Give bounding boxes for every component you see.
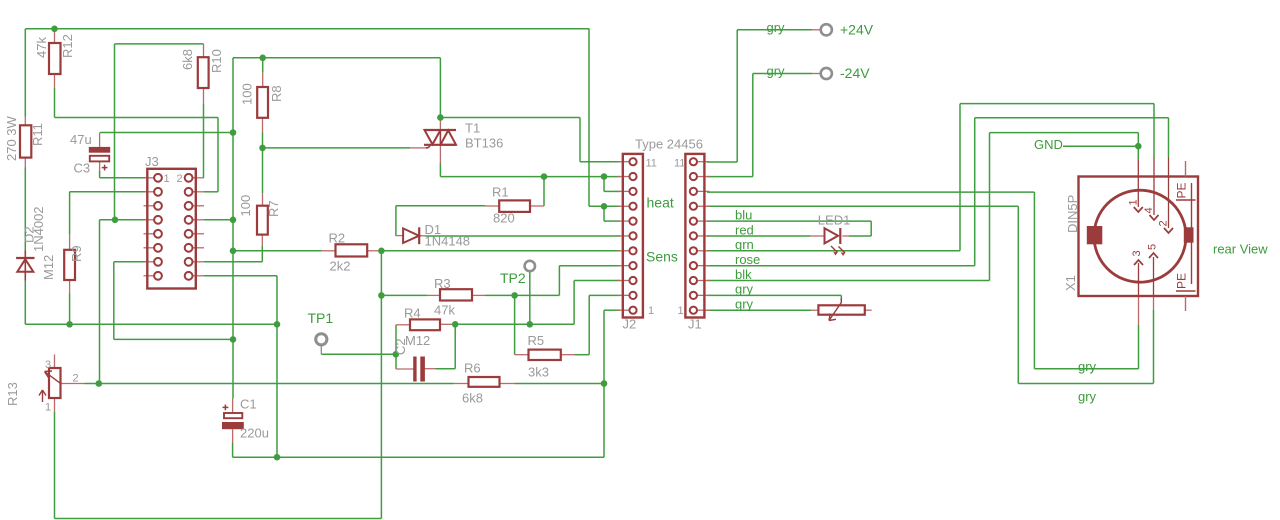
- svg-text:2: 2: [1158, 220, 1170, 226]
- svg-text:2k2: 2k2: [330, 259, 351, 274]
- svg-text:BT136: BT136: [465, 136, 503, 151]
- svg-text:11: 11: [646, 158, 657, 170]
- svg-text:1: 1: [678, 305, 684, 317]
- svg-text:R6: R6: [464, 361, 481, 376]
- svg-text:1: 1: [45, 402, 51, 414]
- svg-text:47u: 47u: [70, 132, 92, 147]
- svg-text:gry: gry: [767, 20, 786, 35]
- svg-text:R11: R11: [30, 123, 45, 146]
- svg-text:M12: M12: [41, 255, 56, 280]
- svg-text:R10: R10: [209, 49, 224, 73]
- svg-text:-24V: -24V: [840, 65, 870, 81]
- svg-text:LED1: LED1: [818, 213, 851, 228]
- svg-text:T1: T1: [465, 121, 480, 136]
- svg-text:47k: 47k: [434, 303, 455, 318]
- svg-text:47k: 47k: [34, 37, 49, 58]
- svg-text:C1: C1: [240, 397, 257, 412]
- svg-text:rose: rose: [735, 252, 760, 267]
- svg-text:X1: X1: [1063, 275, 1078, 291]
- svg-text:gry: gry: [1078, 389, 1097, 404]
- svg-text:R13: R13: [5, 382, 20, 406]
- svg-text:1: 1: [648, 305, 654, 317]
- svg-text:rear View: rear View: [1213, 242, 1268, 257]
- svg-text:1N4002: 1N4002: [31, 206, 46, 252]
- svg-text:PE: PE: [1175, 182, 1189, 198]
- svg-text:820: 820: [493, 211, 515, 226]
- svg-text:J3: J3: [145, 154, 159, 169]
- svg-text:R7: R7: [266, 200, 281, 217]
- svg-text:red: red: [735, 222, 754, 237]
- svg-text:5: 5: [1147, 244, 1159, 250]
- svg-text:R2: R2: [329, 231, 346, 246]
- svg-text:100: 100: [238, 195, 253, 217]
- svg-text:+24V: +24V: [840, 22, 874, 38]
- svg-text:C3: C3: [74, 161, 91, 176]
- svg-text:R3: R3: [434, 276, 451, 291]
- svg-text:R1: R1: [492, 185, 509, 200]
- svg-text:270 3W: 270 3W: [4, 115, 19, 161]
- svg-text:blk: blk: [735, 267, 752, 282]
- svg-text:gry: gry: [735, 297, 754, 312]
- svg-text:6k8: 6k8: [462, 391, 483, 406]
- svg-text:1: 1: [1128, 199, 1140, 205]
- svg-text:blu: blu: [735, 207, 752, 222]
- svg-text:Type 24456: Type 24456: [635, 137, 703, 152]
- svg-text:3k3: 3k3: [528, 365, 549, 380]
- svg-text:3: 3: [45, 359, 51, 371]
- svg-text:Sens: Sens: [646, 249, 678, 265]
- svg-text:1N4148: 1N4148: [425, 234, 471, 249]
- svg-text:J2: J2: [623, 317, 637, 332]
- svg-text:1: 1: [164, 173, 170, 185]
- svg-text:100: 100: [240, 83, 255, 105]
- svg-text:TP1: TP1: [308, 310, 334, 326]
- svg-text:3: 3: [1131, 250, 1143, 256]
- svg-text:M12: M12: [405, 333, 430, 348]
- svg-text:gry: gry: [735, 282, 754, 297]
- svg-text:R4: R4: [404, 306, 421, 321]
- svg-text:R9: R9: [69, 245, 84, 262]
- svg-text:R12: R12: [60, 34, 75, 58]
- svg-text:6k8: 6k8: [180, 49, 195, 70]
- svg-text:PE: PE: [1175, 273, 1189, 289]
- svg-text:gry: gry: [1078, 359, 1097, 374]
- svg-text:DIN5P: DIN5P: [1065, 195, 1080, 233]
- svg-text:R5: R5: [528, 333, 545, 348]
- svg-text:11: 11: [674, 158, 685, 170]
- svg-text:grn: grn: [735, 237, 754, 252]
- svg-text:2: 2: [177, 173, 183, 185]
- svg-text:gry: gry: [767, 64, 786, 79]
- svg-text:TP2: TP2: [500, 270, 526, 286]
- svg-text:2: 2: [73, 373, 79, 385]
- svg-text:R8: R8: [269, 85, 284, 102]
- svg-text:J1: J1: [688, 317, 702, 332]
- svg-text:4: 4: [1143, 207, 1155, 213]
- svg-text:220u: 220u: [240, 426, 269, 441]
- svg-text:GND: GND: [1034, 137, 1063, 152]
- svg-text:heat: heat: [647, 195, 674, 211]
